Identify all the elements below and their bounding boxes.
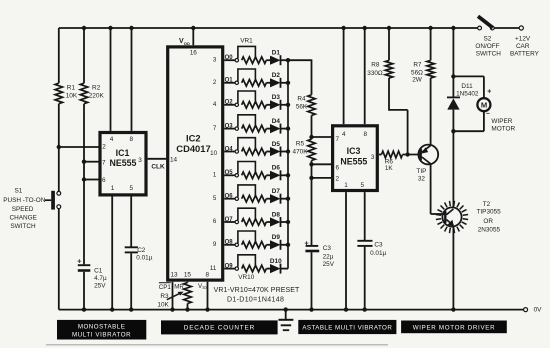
wire +12V top supply rail	[59, 27, 478, 29]
wire VR5 to D5	[266, 151, 270, 153]
svg-text:D4: D4	[272, 118, 281, 125]
motor M wiper motor	[477, 98, 490, 111]
resistor R8 330ohm	[385, 60, 392, 78]
junction diode bus Q8	[286, 243, 290, 247]
resistor R3 10K	[184, 283, 192, 304]
svg-text:7: 7	[102, 159, 106, 166]
svg-text:S2: S2	[483, 36, 491, 43]
wire IC2 Q3 output stub	[224, 128, 235, 130]
wire IC3 pin4 to rail	[343, 28, 345, 124]
preset VR8 resistor element	[242, 219, 267, 226]
svg-text:Q7: Q7	[225, 217, 234, 223]
svg-text:2: 2	[336, 176, 340, 183]
node Q0 wiper circle	[235, 59, 238, 62]
wire IC2 Q6 output stub	[224, 198, 235, 200]
junction diode bus Q1	[286, 81, 290, 85]
svg-text:TIP: TIP	[416, 168, 426, 175]
wire IC2 pin16 to rail	[192, 28, 194, 45]
wire R1 to S1	[58, 104, 60, 192]
terminal +12V car battery	[519, 26, 523, 30]
wire IC2 Q0 output stub	[224, 59, 235, 61]
node Q8 wiper circle	[235, 243, 238, 246]
svg-text:10K: 10K	[66, 93, 78, 100]
wire C3 to ground bus	[311, 252, 313, 309]
wire C1 to ground bus	[83, 272, 85, 310]
wire IC2 Q1 output stub	[224, 82, 235, 84]
svg-text:CLK: CLK	[151, 164, 165, 171]
junction bus C3	[309, 307, 313, 311]
junction top rail R2	[82, 26, 86, 30]
svg-text:D9: D9	[272, 234, 281, 241]
junction diode bus Q5	[286, 173, 290, 177]
svg-text:D8: D8	[272, 211, 281, 218]
svg-text:R8: R8	[371, 62, 380, 69]
wire IC1 pin6 stub	[84, 179, 99, 181]
wire D1 to bus	[281, 59, 289, 61]
wire D8 to bus	[281, 221, 289, 223]
diode D11 1N5402	[447, 96, 460, 98]
wire S1 to ground bus	[58, 209, 60, 310]
wire VR6 to D6	[266, 174, 270, 176]
wire R3 to ground bus	[187, 304, 189, 310]
svg-text:MONOSTABLE: MONOSTABLE	[78, 323, 126, 330]
junction bus IC1 pin1	[110, 307, 114, 311]
wire VR9 to D9	[266, 244, 270, 246]
svg-text:D11: D11	[461, 83, 473, 90]
svg-text:330Ω: 330Ω	[367, 70, 383, 77]
wire IC2 Q4 output stub	[224, 151, 235, 153]
diode D10 1N4148	[270, 264, 281, 273]
wire diode summing bus	[287, 60, 289, 268]
preset VR7 loop	[238, 185, 256, 198]
diode D1 1N4148	[270, 56, 281, 65]
diode D3 1N4148	[270, 100, 281, 109]
wire IC2 Q5 output stub	[224, 174, 235, 176]
svg-text:3: 3	[371, 154, 375, 161]
wire R4 to R5	[311, 115, 313, 139]
transistor T1 TIP32	[418, 145, 438, 165]
wire IC1 pin7 stub	[84, 161, 99, 163]
arrow R3 adjust	[167, 293, 182, 300]
junction IC3 pin6 node	[309, 162, 313, 166]
node Q5 wiper circle	[235, 174, 238, 177]
svg-text:MOTOR: MOTOR	[491, 126, 515, 133]
svg-text:Q4: Q4	[225, 146, 234, 152]
label box MONOSTABLE MULTI VIBRATOR	[57, 320, 146, 340]
svg-text:–: –	[486, 110, 490, 117]
wire D2 to bus	[281, 82, 289, 84]
svg-text:D1: D1	[272, 50, 281, 57]
junction top rail IC3 pin8	[363, 26, 367, 30]
svg-text:32: 32	[418, 176, 426, 183]
wire D7 to bus	[281, 198, 289, 200]
junction top rail R8	[387, 26, 391, 30]
wire rail to R1	[58, 28, 60, 83]
junction bus C1	[82, 307, 86, 311]
svg-text:VR10: VR10	[238, 274, 254, 281]
wire R8 to base node	[388, 78, 390, 111]
wire C3b to ground bus	[364, 247, 366, 310]
svg-text:3: 3	[138, 157, 142, 164]
svg-text:6: 6	[336, 165, 340, 172]
svg-text:1: 1	[111, 185, 115, 192]
resistor R1 10K	[55, 83, 62, 104]
svg-text:OR: OR	[483, 218, 493, 225]
junction base node T1	[405, 152, 409, 156]
svg-text:C3: C3	[374, 241, 383, 248]
transistor T2 TIP3055 heatsink	[463, 218, 468, 221]
wire VR8 to D8	[266, 221, 270, 223]
junction top rail IC1 pin8	[129, 26, 133, 30]
wire IC3 pin3 to R6	[379, 154, 382, 156]
svg-text:Q3: Q3	[225, 123, 234, 129]
capacitor C2 0.01u	[125, 246, 138, 248]
label box WIPER MOTOR DRIVER	[401, 321, 507, 334]
preset VR3 loop	[238, 91, 256, 104]
transistor T2 TIP3055	[442, 207, 461, 226]
svg-text:R1: R1	[67, 84, 76, 91]
resistor R4 56K	[308, 95, 315, 116]
wire motor branch bottom	[483, 111, 485, 131]
wire D4 to bus	[281, 128, 289, 130]
svg-text:NE555: NE555	[340, 157, 367, 167]
wire IC2 pin13 to ground bus	[172, 282, 174, 310]
preset VR2 resistor element	[242, 80, 267, 87]
preset VR5 resistor element	[242, 148, 267, 155]
diode D9 1N4148	[270, 240, 281, 249]
svg-text:M: M	[481, 101, 487, 110]
svg-text:0.01µ: 0.01µ	[136, 255, 152, 262]
svg-text:4: 4	[342, 131, 346, 138]
junction diode bus Q2	[286, 103, 290, 107]
svg-text:11: 11	[210, 265, 217, 272]
svg-text:R7: R7	[413, 62, 422, 69]
svg-text:CAR: CAR	[516, 43, 530, 50]
svg-text:CP1: CP1	[159, 284, 172, 291]
svg-text:D10: D10	[270, 258, 282, 265]
preset VR3 resistor element	[242, 102, 267, 109]
wire D6 to bus	[281, 174, 289, 176]
wire VR7 to D7	[266, 198, 270, 200]
svg-text:1K: 1K	[385, 165, 394, 172]
junction top rail D11 branch	[451, 26, 455, 30]
preset VR10 loop	[238, 255, 256, 268]
wire R5 down to C3	[311, 161, 313, 246]
preset VR5 loop	[238, 138, 256, 151]
svg-text:IC3: IC3	[347, 146, 361, 156]
svg-text:D3: D3	[272, 94, 281, 101]
svg-text:DD: DD	[184, 41, 190, 46]
wire IC1 pin4 to rail	[110, 28, 112, 131]
wire VR1 to D1	[266, 59, 270, 61]
junction diode bus Q0	[286, 58, 290, 62]
wire R2 to C1	[83, 104, 85, 265]
svg-text:6: 6	[102, 177, 106, 184]
wire IC3 pin6 stub	[312, 163, 332, 165]
junction bus IC3 pin1	[344, 307, 348, 311]
wire IC3 pin5 to C3b	[364, 192, 366, 240]
wire IC1 pin8 to rail	[131, 28, 133, 131]
svg-text:10K: 10K	[157, 301, 169, 308]
decade counter IC2 CD4017 box	[168, 47, 223, 280]
svg-text:8: 8	[206, 272, 210, 279]
svg-text:25V: 25V	[323, 261, 335, 268]
label box DECADE COUNTER	[161, 320, 278, 334]
wire 0V ground bus	[59, 309, 524, 311]
junction diode bus Q3	[286, 126, 290, 130]
preset VR8 loop	[238, 208, 256, 221]
junction diode bus Q4	[286, 149, 290, 153]
wire rail to R8	[388, 28, 390, 60]
svg-text:4: 4	[110, 136, 114, 143]
svg-text:MULTI VIBRATOR: MULTI VIBRATOR	[72, 332, 131, 339]
wire T1 collector down	[430, 164, 432, 214]
label box ASTABLE MULTI VIBRATOR	[298, 320, 396, 334]
svg-text:TIP3055: TIP3055	[477, 208, 502, 215]
resistor R6 1K	[382, 151, 403, 158]
diode D6 1N4148	[270, 171, 281, 180]
junction top rail IC3 pin4	[341, 26, 345, 30]
svg-text:CD4017: CD4017	[176, 143, 210, 154]
svg-text:VR1: VR1	[240, 38, 253, 45]
svg-text:2W: 2W	[412, 77, 423, 84]
svg-text:WIPER: WIPER	[491, 118, 512, 125]
wire IC2 Q7 output stub	[224, 221, 235, 223]
diode D4 1N4148	[270, 124, 281, 133]
svg-text:Q5: Q5	[225, 170, 234, 176]
preset VR6 resistor element	[242, 172, 267, 179]
wire D10 to bus	[281, 268, 289, 270]
wire VR3 to D3	[266, 104, 270, 106]
svg-text:7: 7	[336, 136, 340, 143]
wire IC2 pin15 upper	[187, 281, 189, 284]
svg-text:Q9: Q9	[225, 263, 234, 269]
wire R7 to T1 emitter	[430, 78, 432, 145]
junction bus IC2 pin8	[205, 307, 209, 311]
preset VR4 loop	[238, 115, 256, 128]
svg-text:ON/OFF: ON/OFF	[475, 43, 499, 50]
switch S2 contacts	[478, 26, 482, 30]
diode D5 1N4148	[270, 147, 281, 156]
scan artifact line	[46, 344, 388, 346]
wire D9 to bus	[281, 244, 289, 246]
wire IC3 pin1 to ground bus	[345, 192, 347, 310]
svg-text:6: 6	[213, 218, 217, 225]
svg-text:5: 5	[130, 185, 134, 192]
svg-text:8: 8	[364, 131, 368, 138]
wire Q0 node to R4 branch	[288, 59, 312, 61]
junction bus ground symbol	[284, 307, 288, 311]
svg-text:13: 13	[170, 272, 178, 279]
wire IC2 pin8 Vss to ground bus	[207, 282, 209, 310]
wire IC1 pin1 to ground bus	[111, 197, 113, 310]
svg-text:1: 1	[344, 182, 348, 189]
wire motor branch top	[453, 75, 484, 77]
junction bus C2	[129, 307, 133, 311]
node Q4 wiper circle	[235, 150, 238, 153]
node trigger junction R1/pin2	[57, 145, 61, 149]
switch S2 blade	[478, 16, 493, 27]
wire D3 to bus	[281, 104, 289, 106]
svg-text:T2: T2	[483, 201, 491, 208]
svg-text:IC2: IC2	[186, 132, 201, 143]
diode D2 1N4148	[270, 78, 281, 87]
svg-text:4: 4	[213, 101, 217, 108]
svg-text:8: 8	[130, 136, 134, 143]
svg-text:1: 1	[213, 172, 217, 179]
wire T2 emitter to ground bus	[452, 226, 454, 310]
junction diode bus Q6	[286, 197, 290, 201]
svg-text:ASTABLE MULTI VIBRATOR: ASTABLE MULTI VIBRATOR	[302, 325, 392, 332]
wire D11 to motor bottom node	[452, 110, 454, 132]
svg-text:WIPER MOTOR DRIVER: WIPER MOTOR DRIVER	[413, 324, 496, 331]
svg-text:470K: 470K	[293, 148, 309, 155]
wire S2 to battery terminal	[494, 27, 519, 29]
svg-text:0V: 0V	[534, 307, 543, 314]
switch S1 push-to-on	[57, 191, 61, 195]
svg-text:+: +	[487, 89, 491, 96]
svg-text:SWITCH: SWITCH	[476, 51, 502, 58]
svg-text:10: 10	[210, 150, 217, 157]
node Q2 wiper circle	[235, 103, 238, 106]
svg-text:0.01µ: 0.01µ	[370, 250, 386, 257]
junction pin6 node	[82, 177, 86, 181]
junction motor bottom node	[451, 129, 455, 133]
svg-text:Q8: Q8	[225, 240, 234, 246]
junction top rail IC1 pin4	[108, 26, 112, 30]
junction top rail R7	[428, 26, 432, 30]
svg-text:D5: D5	[272, 141, 281, 148]
junction top rail IC2 pin16	[191, 26, 195, 30]
svg-text:16: 16	[190, 50, 198, 57]
wire motor bottom to T2 collector	[452, 131, 454, 208]
timer IC3 NE555 box	[333, 126, 378, 191]
preset VR4 resistor element	[242, 125, 267, 132]
svg-text:VR1-VR10=470K PRESET: VR1-VR10=470K PRESET	[214, 287, 300, 294]
svg-text:5: 5	[213, 195, 217, 202]
svg-text:56Ω: 56Ω	[411, 69, 423, 76]
junction pin7 node	[82, 160, 86, 164]
node Q9 wiper circle	[235, 267, 238, 270]
svg-text:D7: D7	[272, 188, 281, 195]
terminal 0V	[524, 308, 528, 312]
svg-text:D2: D2	[272, 72, 281, 79]
wire VR10 to D10	[266, 268, 270, 270]
svg-text:2: 2	[102, 143, 106, 150]
svg-text:22µ: 22µ	[323, 253, 334, 260]
wire IC1 pin5 to C2	[130, 197, 132, 247]
svg-text:C2: C2	[137, 247, 146, 254]
svg-text:4.7µ: 4.7µ	[94, 275, 107, 282]
svg-text:D6: D6	[272, 165, 281, 172]
svg-text:NE555: NE555	[110, 158, 137, 168]
wire rail to D11	[452, 28, 454, 97]
wire IC3 pin2 stub	[312, 177, 332, 179]
svg-text:220K: 220K	[89, 93, 105, 100]
junction bus T2 emitter	[451, 307, 455, 311]
node Q3 wiper circle	[235, 127, 238, 130]
svg-text:S1: S1	[14, 187, 22, 194]
ground symbol	[278, 314, 299, 336]
capacitor C3b 0.01u	[357, 240, 372, 242]
wire IC1 pin2 stub	[59, 146, 99, 148]
svg-text:SWITCH: SWITCH	[10, 223, 36, 230]
node Q6 wiper circle	[235, 197, 238, 200]
resistor R7 56ohm 2W	[427, 60, 434, 78]
svg-text:56K: 56K	[296, 103, 308, 110]
svg-text:+12V: +12V	[515, 36, 531, 43]
preset VR6 loop	[238, 162, 256, 175]
wire VR2 to D2	[266, 82, 270, 84]
wire VR4 to D4	[266, 128, 270, 130]
svg-text:C1: C1	[94, 267, 103, 274]
svg-text:7: 7	[213, 125, 217, 132]
junction bus R3	[185, 307, 189, 311]
node Q1 wiper circle	[235, 81, 238, 84]
svg-text:IC1: IC1	[116, 148, 130, 158]
svg-text:Q2: Q2	[225, 100, 234, 106]
wire IC2 Q9 output stub	[224, 268, 235, 270]
wire C2 to ground bus	[130, 253, 132, 309]
svg-text:5: 5	[361, 182, 365, 189]
junction motor top node	[451, 74, 455, 78]
junction bus IC2 pin13	[170, 307, 174, 311]
svg-text:R5: R5	[296, 140, 305, 147]
wire IC2 Q2 output stub	[224, 104, 235, 106]
svg-text:Q1: Q1	[225, 78, 234, 84]
node Q7 wiper circle	[235, 220, 238, 223]
wire IC1 pin3 to IC2 pin14	[148, 158, 167, 160]
svg-text:PUSH -TO-ON: PUSH -TO-ON	[3, 197, 46, 204]
junction diode bus Q7	[286, 220, 290, 224]
svg-text:14: 14	[170, 157, 178, 164]
preset VR7 resistor element	[242, 195, 267, 202]
svg-text:1N5402: 1N5402	[456, 90, 479, 97]
svg-text:R2: R2	[92, 84, 101, 91]
svg-text:25V: 25V	[94, 282, 106, 289]
wire R6 to base node	[403, 154, 420, 156]
svg-text:3: 3	[213, 56, 217, 63]
preset VR2 loop	[238, 69, 256, 82]
wire rail to R2	[83, 28, 85, 83]
wire IC3 pin8 to rail	[364, 28, 366, 124]
diode D7 1N4148	[270, 194, 281, 203]
svg-text:2N3055: 2N3055	[478, 226, 501, 233]
svg-text:Q0: Q0	[225, 55, 234, 61]
preset VR1 resistor element	[242, 57, 267, 64]
preset VR1 loop	[238, 46, 256, 59]
op-amp timer IC1 NE555 box	[100, 133, 146, 195]
svg-text:C3: C3	[323, 245, 332, 252]
preset VR9 resistor element	[242, 242, 267, 249]
wire IC2 Q8 output stub	[224, 244, 235, 246]
junction IC3 pin2 node	[309, 176, 313, 180]
wire IC3 pin7 stub	[312, 136, 332, 138]
wire D5 to bus	[281, 151, 289, 153]
preset VR9 loop	[238, 231, 256, 244]
svg-text:DECADE COUNTER: DECADE COUNTER	[184, 325, 255, 332]
wire rail to R7	[430, 28, 432, 60]
junction IC3 pin7 node	[309, 135, 313, 139]
preset VR10 resistor element	[242, 265, 267, 272]
svg-text:D1-D10=1N4148: D1-D10=1N4148	[227, 297, 284, 304]
svg-text:R4: R4	[297, 95, 306, 102]
svg-text:2: 2	[213, 79, 217, 86]
resistor R2 220K	[80, 83, 87, 104]
svg-text:CHANGE: CHANGE	[10, 215, 37, 222]
junction bus C3b	[363, 307, 367, 311]
svg-text:9: 9	[213, 241, 217, 248]
